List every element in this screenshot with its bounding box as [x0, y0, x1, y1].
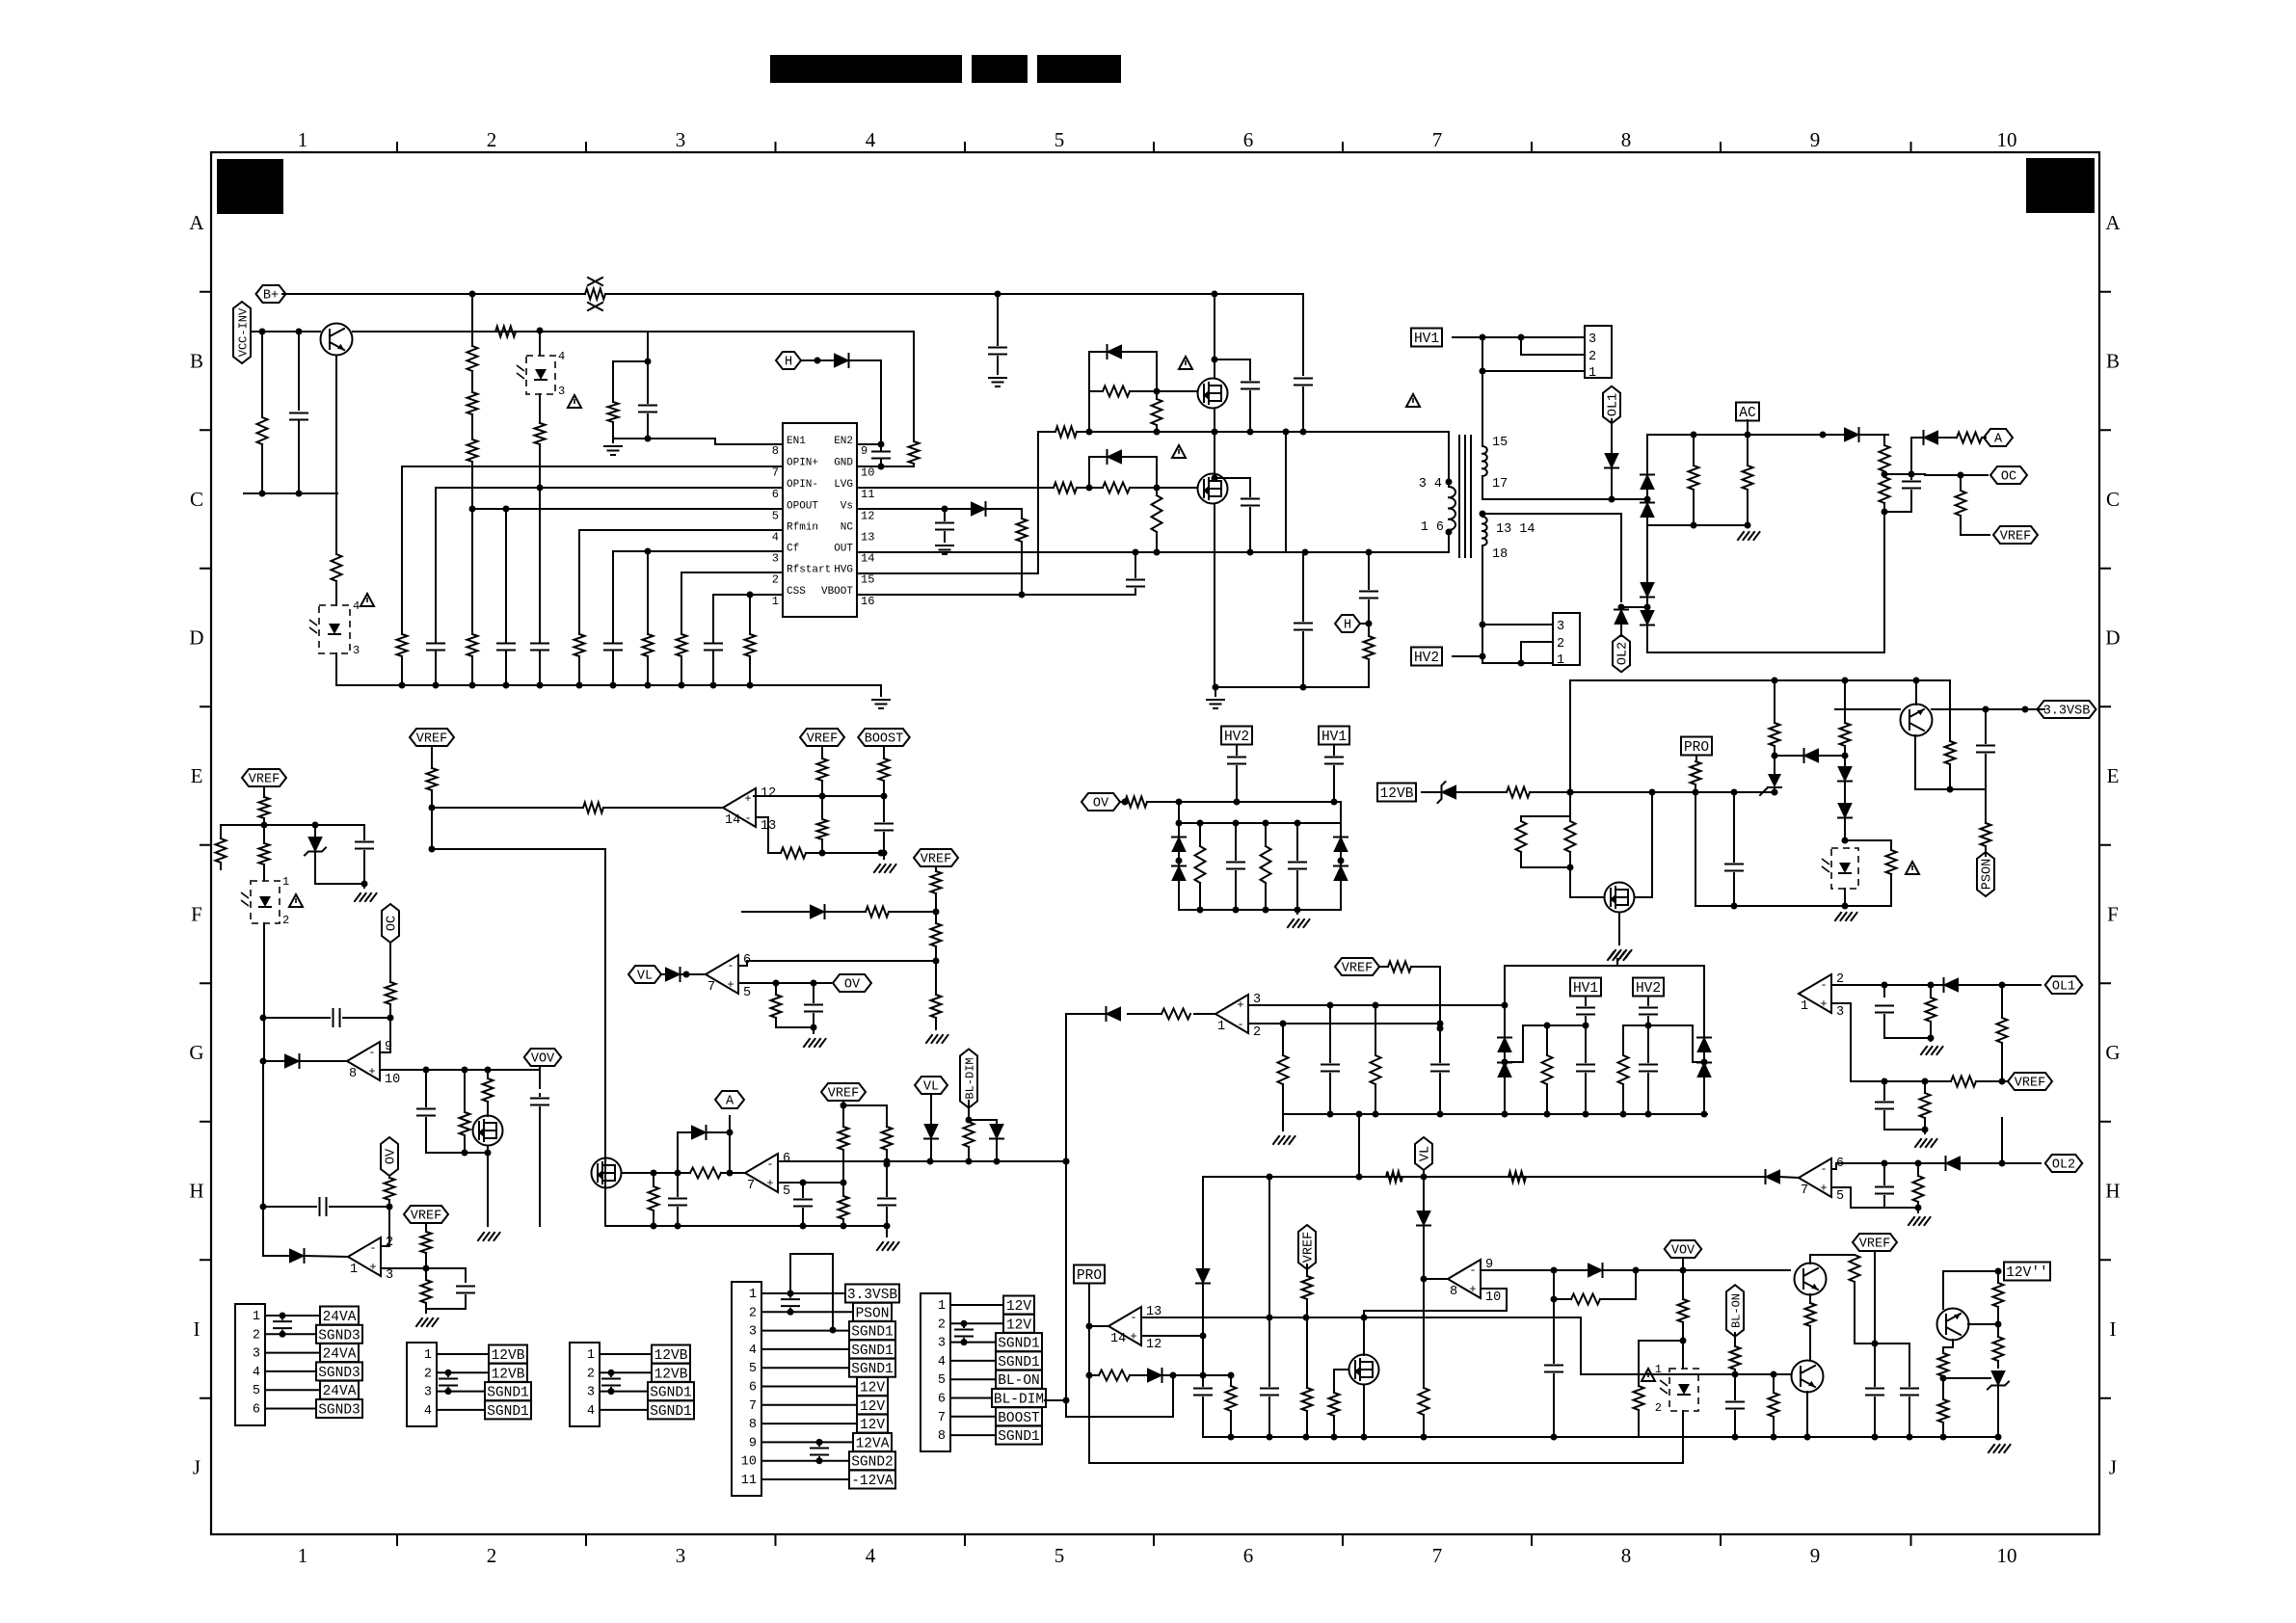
- svg-text:H: H: [189, 1180, 203, 1203]
- junction: [1300, 429, 1307, 436]
- svg-text:12VB: 12VB: [654, 1367, 688, 1382]
- net flag VREF f3: [914, 849, 958, 866]
- wire: [1779, 1177, 1799, 1178]
- wire: [1682, 1322, 1684, 1369]
- wire: [996, 1139, 998, 1161]
- wire: [1156, 391, 1158, 399]
- junction: [1176, 858, 1183, 865]
- wire: [1422, 791, 1441, 793]
- wire row h gnd bus: [605, 1225, 887, 1227]
- wire: [1884, 473, 1925, 475]
- wire: [1734, 1411, 1736, 1437]
- wire Vs pin12: [857, 508, 971, 510]
- wire: [1883, 985, 1885, 997]
- junction: [811, 980, 817, 987]
- wire: [539, 656, 541, 685]
- junction: [1732, 1371, 1739, 1378]
- wire: [1199, 823, 1201, 846]
- wire: [712, 640, 714, 643]
- wire: [1682, 1270, 1684, 1299]
- junction: [260, 1058, 267, 1065]
- resistor R ol1: [1926, 998, 1936, 1022]
- warning triangle: [289, 894, 303, 907]
- svg-text:BOOST: BOOST: [998, 1411, 1040, 1426]
- svg-text:8: 8: [749, 1418, 757, 1432]
- wire: [1616, 959, 1618, 966]
- wire pin2 bus: [1248, 1023, 1440, 1024]
- svg-text:2: 2: [1589, 350, 1596, 364]
- wire: [1368, 600, 1370, 636]
- wire: [1806, 1392, 1808, 1437]
- junction: [1200, 1333, 1207, 1340]
- label SGND3: [316, 1325, 362, 1344]
- wire: [677, 1173, 679, 1196]
- junction: [433, 682, 440, 689]
- wire: [1521, 852, 1570, 867]
- junction: [296, 491, 303, 497]
- warning triangle: [1642, 1369, 1655, 1381]
- junction: [1213, 684, 1219, 691]
- wire: [1178, 852, 1180, 865]
- wire: [1747, 420, 1749, 435]
- wire pin 2: [950, 1322, 1003, 1324]
- wire: [677, 1208, 679, 1226]
- redacted logo top-left: [217, 159, 283, 214]
- wire a-fb: [742, 911, 810, 913]
- svg-text:3: 3: [353, 644, 360, 657]
- wire: [1985, 846, 1987, 856]
- label SGND2: [849, 1451, 895, 1470]
- wire: [1646, 518, 1648, 525]
- svg-text:HV2: HV2: [1414, 651, 1439, 666]
- wire: [505, 509, 507, 640]
- wire: [435, 656, 437, 685]
- junction: [1691, 522, 1697, 529]
- junction: [1197, 907, 1204, 914]
- junction: [1154, 388, 1161, 395]
- MOSFET M2 low side: [1198, 474, 1228, 504]
- transformer primary winding: [1449, 487, 1455, 530]
- net flag VL h4: [915, 1077, 948, 1094]
- wire pin 4: [437, 1409, 485, 1411]
- wire: [1178, 881, 1180, 910]
- svg-text:OPIN-: OPIN-: [787, 479, 818, 491]
- wire: [1296, 823, 1298, 860]
- svg-text:VL: VL: [1419, 1146, 1433, 1161]
- junction: [445, 1388, 452, 1395]
- svg-text:-12VA: -12VA: [851, 1474, 894, 1489]
- ground hv: [1608, 952, 1630, 960]
- svg-text:EN1: EN1: [787, 436, 806, 447]
- diode ov4: [1334, 866, 1348, 881]
- wire: [883, 746, 885, 758]
- diode i5: [1196, 1269, 1210, 1284]
- wire: [1775, 755, 1803, 757]
- wire: [969, 1120, 997, 1124]
- ground: [1288, 919, 1310, 927]
- junction: [1086, 485, 1093, 492]
- ground: [478, 1233, 500, 1240]
- wire OPIN- pin6: [436, 487, 783, 489]
- junction: [296, 329, 303, 335]
- warning triangle: [360, 594, 374, 606]
- junction: [1086, 429, 1093, 436]
- svg-text:OL1: OL1: [2052, 980, 2075, 995]
- wire: [315, 852, 364, 884]
- wire: [883, 853, 885, 859]
- resistor R a3: [1957, 433, 1982, 443]
- junction: [1544, 1111, 1551, 1118]
- wire: [1622, 1025, 1624, 1055]
- junction: [503, 682, 510, 689]
- wire: [935, 893, 937, 923]
- ground: [604, 446, 622, 455]
- svg-text:3: 3: [558, 385, 565, 398]
- diode or1: [285, 1054, 300, 1068]
- resistor bottom row: [397, 634, 408, 656]
- wire: [1976, 1080, 2008, 1082]
- wire: [1982, 437, 1986, 439]
- svg-text:D: D: [189, 626, 203, 650]
- wire pin 5: [761, 1367, 849, 1369]
- wire: [1844, 746, 1846, 766]
- label 12VB: [489, 1345, 527, 1364]
- wire: [1265, 823, 1267, 846]
- transformer T1 core: [1459, 436, 1471, 557]
- wire: [1340, 852, 1342, 865]
- junction: [1842, 753, 1849, 759]
- wire: [603, 807, 723, 809]
- wire: [1809, 1326, 1811, 1360]
- wire: [1569, 680, 1571, 816]
- svg-text:LVG: LVG: [834, 479, 853, 491]
- junction: [1247, 549, 1254, 556]
- resistor R div3: [467, 439, 478, 462]
- svg-text:1: 1: [253, 1310, 260, 1324]
- svg-text:4: 4: [866, 1544, 876, 1567]
- wire bottom return bus: [1215, 686, 1369, 688]
- wire: [1505, 1025, 1586, 1062]
- resistor R g1: [460, 1112, 470, 1135]
- wire standby top rail: [1570, 679, 1950, 681]
- svg-text:15: 15: [1492, 436, 1508, 450]
- ground: [1921, 1047, 1943, 1054]
- ground: [936, 545, 953, 554]
- wire: [1774, 766, 1775, 774]
- wire: [889, 911, 936, 913]
- wire: [1553, 1270, 1555, 1299]
- junction: [1804, 1434, 1811, 1441]
- svg-text:10: 10: [1485, 1290, 1501, 1305]
- junction: [675, 1223, 681, 1230]
- diode or2: [290, 1249, 305, 1263]
- junction: [1909, 471, 1915, 478]
- wire: [1773, 1417, 1775, 1437]
- junction: [1551, 1267, 1558, 1274]
- wire: [1520, 816, 1522, 821]
- wire: [1884, 474, 1911, 479]
- net flag VREF i6: [1298, 1225, 1316, 1269]
- junction: [485, 1150, 492, 1157]
- label BOOST: [996, 1407, 1042, 1425]
- wire: [1282, 1084, 1284, 1114]
- junction: [1366, 621, 1373, 627]
- label 12V: [857, 1415, 888, 1433]
- junction: [1480, 622, 1486, 628]
- wire: [1884, 1015, 1931, 1038]
- svg-text:3: 3: [676, 1544, 686, 1567]
- wire: [425, 1303, 427, 1313]
- capacitor C vov: [531, 1099, 548, 1105]
- ground: [1273, 1136, 1295, 1144]
- junction: [1421, 1276, 1428, 1283]
- wire: [1819, 755, 1845, 757]
- op-amp U4C: [1215, 995, 1248, 1033]
- wire: [1733, 873, 1735, 906]
- wire: [1089, 351, 1107, 353]
- wire M1 drain: [1214, 294, 1215, 378]
- net flag VOV g2: [524, 1049, 562, 1066]
- junction: [1233, 820, 1240, 827]
- wire: [935, 866, 937, 871]
- wire OPIN+ pin7: [402, 466, 783, 467]
- junction: [1645, 1111, 1652, 1118]
- junction: [1995, 1434, 2002, 1441]
- junction: [1633, 1267, 1640, 1274]
- wire: [471, 294, 473, 346]
- junction: [1502, 1002, 1508, 1009]
- junction: [387, 1204, 393, 1211]
- wire: [1375, 1005, 1376, 1055]
- net flag BL-ON: [1726, 1285, 1744, 1337]
- svg-text:7: 7: [1432, 1544, 1443, 1567]
- wire: [1639, 1341, 1683, 1386]
- junction: [1063, 1397, 1070, 1404]
- wire: [1306, 1264, 1308, 1276]
- junction: [1583, 1111, 1589, 1118]
- capacitor C g3a: [805, 1005, 822, 1012]
- svg-text:2: 2: [1655, 1401, 1662, 1415]
- svg-text:12: 12: [1146, 1338, 1161, 1352]
- resistor R gate1: [1103, 386, 1130, 397]
- wire pin6 bus: [738, 961, 936, 966]
- wire vref node: [221, 824, 364, 826]
- junction: [645, 436, 652, 442]
- wire: [1088, 391, 1090, 432]
- svg-text:3: 3: [1589, 333, 1596, 347]
- junction: [1063, 1158, 1070, 1165]
- resistor R blon2: [1769, 1393, 1779, 1417]
- wire: [1859, 434, 1884, 436]
- wire: [1439, 1074, 1441, 1114]
- optocoupler PC1 LED side: [251, 881, 280, 923]
- svg-text:1: 1: [282, 875, 289, 889]
- wire: [1296, 910, 1298, 914]
- junction: [1327, 1111, 1334, 1118]
- label 24VA: [320, 1381, 359, 1399]
- junction: [1212, 475, 1218, 482]
- label 12VB: [1377, 784, 1416, 802]
- junction: [800, 1223, 807, 1230]
- wire: [1734, 1333, 1736, 1346]
- resistor R sb1: [1516, 821, 1527, 852]
- junction: [814, 358, 821, 364]
- ground: [989, 378, 1006, 386]
- resistor R i1: [421, 1232, 432, 1253]
- label 12V: [857, 1377, 888, 1396]
- wire: [465, 1268, 467, 1282]
- resistor R div2: [467, 392, 478, 414]
- wire: [677, 1132, 679, 1173]
- junction: [1922, 1127, 1929, 1133]
- junction: [280, 1331, 286, 1338]
- wire hv sense gnd bus: [1283, 1113, 1707, 1115]
- wire: [1215, 359, 1250, 360]
- wire: [883, 781, 885, 821]
- resistor R latch2: [1840, 723, 1851, 746]
- junction: [1228, 1372, 1235, 1379]
- wire: [263, 1206, 316, 1208]
- wire: [261, 332, 263, 417]
- transistor Q 12v: [1937, 1309, 1969, 1341]
- junction: [1645, 1023, 1652, 1029]
- junction: [1999, 1078, 2006, 1085]
- junction: [1983, 706, 1989, 713]
- junction: [576, 682, 583, 689]
- wire main gnd bus bottom: [1203, 1436, 1998, 1438]
- junction: [1234, 799, 1241, 806]
- net flag VCC-INV: [233, 302, 251, 363]
- svg-text:SGND1: SGND1: [650, 1386, 692, 1401]
- diode chain 2: [1838, 804, 1852, 818]
- wire: [1521, 815, 1570, 817]
- wire OC: [1925, 474, 1988, 476]
- svg-text:SGND3: SGND3: [318, 1328, 360, 1344]
- capacitor C ov: [320, 1198, 327, 1215]
- wire ov mid bus: [1179, 822, 1341, 824]
- junction: [1882, 509, 1888, 516]
- svg-text:12VB: 12VB: [492, 1367, 525, 1382]
- wire B+ rail right: [605, 293, 1303, 295]
- wire: [1156, 425, 1158, 432]
- wire pin 1: [265, 1315, 320, 1317]
- ground: [1915, 1139, 1937, 1147]
- junction: [727, 1170, 734, 1177]
- resistor R g4: [1161, 1009, 1190, 1020]
- svg-text:OPIN+: OPIN+: [787, 458, 818, 469]
- wire: [505, 640, 507, 643]
- MOSFET Q sb: [1605, 883, 1635, 913]
- connector CN1: [235, 1304, 265, 1425]
- wire: [612, 361, 614, 402]
- junction: [1940, 1375, 1947, 1382]
- wire: [1646, 598, 1648, 610]
- svg-text:14: 14: [725, 813, 740, 828]
- wire: [1235, 871, 1237, 910]
- svg-text:J: J: [193, 1456, 200, 1479]
- net flag A: [1984, 429, 2013, 446]
- wire: [801, 359, 835, 361]
- svg-text:HVG: HVG: [834, 565, 853, 576]
- junction: [961, 1320, 968, 1327]
- wire: [432, 807, 583, 809]
- svg-text:6: 6: [783, 1152, 790, 1166]
- diode ol2: [1946, 1157, 1961, 1170]
- svg-text:OC: OC: [386, 916, 400, 931]
- junction: [1356, 1111, 1363, 1118]
- junction: [610, 682, 617, 689]
- wire: [612, 422, 614, 439]
- connector CN-HV1 body: [1585, 326, 1612, 378]
- wire: [1194, 1013, 1215, 1015]
- wire: [678, 1172, 690, 1174]
- wire: [1546, 1084, 1548, 1114]
- wire rect return: [1647, 512, 1884, 652]
- wire: [1942, 1271, 1944, 1309]
- junction: [1154, 429, 1161, 436]
- wire: [471, 371, 473, 392]
- svg-text:12V: 12V: [1006, 1299, 1031, 1315]
- junction: [1928, 982, 1935, 989]
- resistor R i6b: [1302, 1388, 1313, 1411]
- junction: [1086, 1323, 1093, 1330]
- wire pin12: [1141, 1335, 1203, 1337]
- redacted logo top-right: [2026, 158, 2095, 213]
- net flag VREF g6: [1335, 958, 1379, 975]
- wire: [1045, 1399, 1066, 1401]
- junction: [1922, 1078, 1929, 1085]
- wire EN2 pin9: [857, 443, 881, 445]
- svg-text:VREF: VREF: [2000, 530, 2031, 545]
- label SGND1: [485, 1382, 531, 1400]
- label SGND1: [996, 1333, 1042, 1351]
- wire: [1236, 766, 1238, 802]
- capacitor C startup: [290, 413, 307, 420]
- wire: [220, 863, 222, 869]
- svg-text:Vs: Vs: [841, 501, 853, 513]
- wire: [432, 848, 605, 850]
- junction: [429, 805, 436, 811]
- wire: [1302, 632, 1304, 687]
- wire: [1333, 766, 1335, 802]
- diode A feed: [1845, 428, 1859, 441]
- wire: [1747, 490, 1749, 525]
- border frame: [211, 152, 2099, 1534]
- wire ov gnd bus: [1179, 909, 1341, 911]
- junction: [260, 1204, 267, 1211]
- junction: [1644, 496, 1651, 503]
- label HV2 g7: [1633, 978, 1664, 997]
- junction: [1731, 789, 1738, 796]
- label SGND1: [996, 1426, 1042, 1445]
- resistor R ol2: [1913, 1176, 1924, 1202]
- wire: [843, 1105, 887, 1127]
- wire vov fb: [1364, 1289, 1507, 1311]
- diode vl h7: [1417, 1211, 1430, 1226]
- wire: [363, 851, 365, 884]
- capacitor C ol2: [1876, 1187, 1893, 1194]
- wire: [1890, 840, 1892, 850]
- svg-text:OC: OC: [2001, 470, 2016, 485]
- wire: [1622, 1084, 1624, 1114]
- wire: [1883, 471, 1885, 477]
- svg-text:4: 4: [749, 1344, 757, 1358]
- svg-text:4: 4: [253, 1366, 260, 1380]
- resistor bottom row: [574, 634, 585, 656]
- svg-text:OL2: OL2: [1616, 642, 1631, 665]
- svg-text:13: 13: [861, 531, 874, 545]
- wire: [464, 1070, 466, 1112]
